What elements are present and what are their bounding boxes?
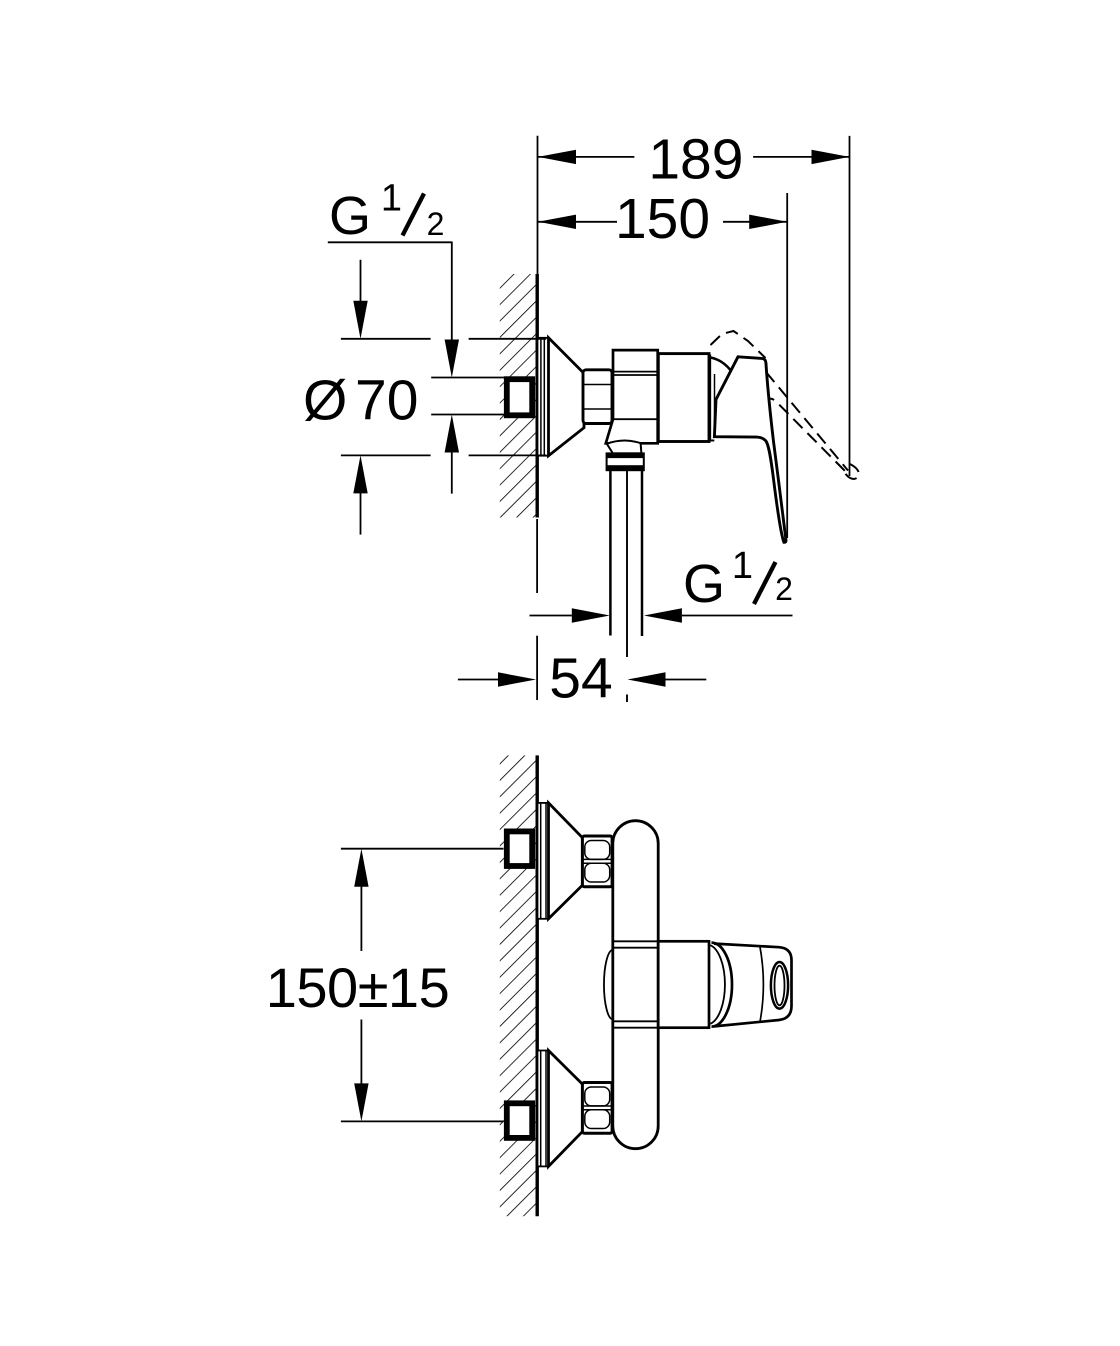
- svg-text:189: 189: [648, 127, 743, 191]
- cap edge lines: [708, 355, 711, 441]
- body capsule: [613, 821, 658, 1149]
- dome arcs bottom fig: [712, 943, 733, 1027]
- extension line 189 (x=849.5): [849, 136, 851, 476]
- svg-text:2: 2: [775, 571, 793, 607]
- dimension 54: [458, 679, 498, 681]
- svg-text:G: G: [329, 186, 371, 246]
- supply pipe stub lines: [431, 377, 504, 379]
- capsule left bulge: [604, 950, 613, 1019]
- lower escutcheon plate: [538, 1051, 549, 1167]
- lower cone: [549, 1051, 583, 1167]
- wall hatching bottom figure: [500, 755, 537, 1216]
- solid lever (down position): [714, 357, 786, 543]
- svg-text:150: 150: [615, 187, 710, 251]
- escutcheon base plate: [538, 338, 549, 456]
- wall union square fitting: [507, 379, 532, 415]
- svg-text:1: 1: [381, 178, 402, 220]
- extension line 150 (x=787): [786, 193, 788, 538]
- upper square fitting: [507, 831, 532, 866]
- wall line top figure: [536, 274, 539, 518]
- wall line bottom figure: [536, 755, 539, 1216]
- svg-text:1: 1: [732, 545, 753, 587]
- svg-text:70: 70: [355, 369, 418, 433]
- valve body left part: [606, 350, 658, 443]
- grip handle top view: [714, 944, 792, 1027]
- extension line left common (x=537.5): [537, 136, 539, 274]
- svg-text:Ø: Ø: [303, 369, 347, 433]
- wall hatching top figure: [500, 274, 537, 518]
- dimension 150: [538, 221, 618, 223]
- hose nut: [607, 453, 644, 470]
- dimension Ø70 arrows: [360, 260, 362, 302]
- dimension 189: [538, 156, 635, 158]
- dimension 150±15: [360, 886, 362, 951]
- upper cone: [549, 803, 583, 919]
- hex nut side view: [583, 370, 612, 424]
- lower supply line: [341, 1120, 504, 1122]
- capsule cross lines: [614, 940, 659, 942]
- svg-text:G: G: [683, 554, 725, 614]
- G1/2 label top leader: [328, 241, 453, 243]
- upper escutcheon plate: [538, 803, 549, 919]
- upper supply line: [341, 848, 504, 850]
- dashed lever (raised position): [711, 331, 859, 479]
- lower hex nut: [582, 1083, 612, 1134]
- cartridge block bottom fig: [658, 941, 709, 1027]
- upper hex nut: [582, 836, 612, 887]
- lower square fitting: [507, 1103, 532, 1138]
- dome arc: [711, 358, 732, 372]
- svg-text:54: 54: [549, 646, 612, 710]
- shower hose: [609, 470, 612, 635]
- cartridge body: [658, 354, 709, 442]
- dimension G1/2 bottom: [530, 615, 572, 617]
- svg-text:2: 2: [427, 206, 445, 242]
- svg-text:150±15: 150±15: [266, 956, 449, 1019]
- outlet collar: [607, 441, 642, 454]
- escutcheon cone: [549, 338, 585, 456]
